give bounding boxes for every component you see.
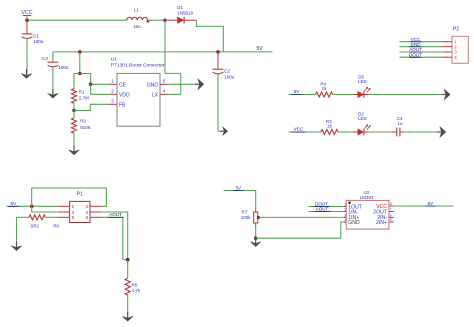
ground below R5 xyxy=(127,312,129,318)
svg-text:D1: D1 xyxy=(177,5,183,10)
svg-text:2.7M: 2.7M xyxy=(79,95,89,100)
wire node to R1 xyxy=(74,74,80,89)
svg-text:3: 3 xyxy=(111,98,114,103)
svg-text:GND: GND xyxy=(411,42,422,47)
ground below C3 xyxy=(52,89,54,95)
svg-text:2: 2 xyxy=(111,88,114,93)
potentiometer R7 xyxy=(255,209,257,212)
junction L1/D1/LX xyxy=(163,19,167,23)
wire node to CE/VDD xyxy=(80,74,109,85)
capacitor C3 xyxy=(52,52,54,62)
capacitor C4 xyxy=(392,131,397,133)
wire to P1 pin3 xyxy=(32,206,58,212)
svg-text:2: 2 xyxy=(85,204,88,210)
svg-text:R5: R5 xyxy=(132,283,138,288)
comparator U2 box xyxy=(346,200,389,229)
svg-text:C1: C1 xyxy=(33,33,39,38)
junction CE/VDD xyxy=(89,83,93,87)
svg-text:AOUT: AOUT xyxy=(316,206,329,211)
svg-text:5V: 5V xyxy=(428,201,434,206)
ground below SR1 xyxy=(16,241,18,247)
wire R7 wiper to 1IN+ xyxy=(258,216,344,218)
svg-text:1u: 1u xyxy=(398,121,404,126)
junction R1 node xyxy=(78,72,82,76)
svg-text:100n: 100n xyxy=(58,65,69,70)
wire AOUT to U2 xyxy=(309,211,344,213)
svg-text:4: 4 xyxy=(163,88,166,93)
svg-text:1: 1 xyxy=(71,204,74,210)
diode D1 xyxy=(165,19,177,21)
svg-text:5V: 5V xyxy=(235,186,241,191)
U2 pin 2 1IN- xyxy=(344,211,346,213)
svg-text:5: 5 xyxy=(163,78,166,83)
U2 pin1 marker xyxy=(348,202,350,204)
ground below R7 xyxy=(255,237,257,243)
U2 pin 8 VCC xyxy=(389,205,394,207)
svg-text:SR1: SR1 xyxy=(30,223,39,228)
svg-text:10u: 10u xyxy=(133,24,141,29)
wire D2 to C4 xyxy=(369,131,396,133)
svg-text:6: 6 xyxy=(390,214,392,218)
svg-text:100u: 100u xyxy=(224,74,235,79)
wire C4 to ground arrow xyxy=(404,131,437,133)
P1 pin 3 stub xyxy=(58,211,70,213)
wire R3 to D2 xyxy=(338,131,353,133)
wire P1 pin6 AOUT xyxy=(102,217,128,259)
wire D3 to ground arrow xyxy=(369,94,442,96)
wire VCC to R3 xyxy=(289,131,321,133)
svg-text:2: 2 xyxy=(344,208,346,212)
wire loop over P1 xyxy=(32,188,107,206)
wire 5V rail xyxy=(53,51,273,53)
svg-text:1: 1 xyxy=(111,78,114,83)
svg-text:1N5819: 1N5819 xyxy=(177,11,193,16)
svg-text:100k: 100k xyxy=(241,215,252,220)
U1 pin 5 GND xyxy=(160,83,168,85)
svg-text:R1: R1 xyxy=(79,89,85,94)
svg-text:1: 1 xyxy=(344,203,346,207)
svg-text:FB: FB xyxy=(119,102,126,108)
LED D3 xyxy=(353,94,358,96)
svg-text:GND: GND xyxy=(348,220,360,226)
capacitor C1 xyxy=(26,20,28,34)
svg-text:R6: R6 xyxy=(53,224,59,229)
resistor R4 xyxy=(316,92,333,97)
U1 pin 1 CE xyxy=(109,83,117,85)
wire P2 pin 4 net DOUT xyxy=(400,56,443,58)
svg-text:5V: 5V xyxy=(294,89,300,94)
connector P2 box xyxy=(452,36,468,63)
svg-text:5V: 5V xyxy=(10,201,16,206)
junction R1/R2/FB xyxy=(72,109,76,113)
junction rail/divider xyxy=(78,50,82,54)
wire DOUT to U2 xyxy=(309,206,344,208)
wire FB xyxy=(74,104,109,110)
svg-text:R7: R7 xyxy=(242,209,248,214)
U1 pin 2 VDD xyxy=(109,93,117,95)
wire LX to inductor node xyxy=(165,20,181,94)
wire GND pin xyxy=(168,83,195,85)
connector P1 box xyxy=(70,201,90,222)
svg-text:6: 6 xyxy=(85,215,88,221)
wire 5V to R4 xyxy=(289,94,316,96)
U2 pin 5 2IN+ xyxy=(389,221,394,223)
svg-text:4: 4 xyxy=(85,210,88,216)
U2 pin 6 2IN- xyxy=(389,216,394,218)
P1 pin 2 stub xyxy=(90,205,102,207)
svg-text:CE: CE xyxy=(119,82,127,88)
svg-text:1k: 1k xyxy=(327,124,333,129)
wire R4 to D3 xyxy=(333,94,353,96)
junction P1 xyxy=(30,205,34,209)
ground below R2 xyxy=(73,146,75,152)
wire VCC rail top xyxy=(27,19,127,21)
wire pin5 left xyxy=(45,216,58,218)
svg-text:2IN+: 2IN+ xyxy=(376,220,387,226)
svg-text:5V: 5V xyxy=(256,46,263,52)
ground right row2 xyxy=(437,131,441,133)
P1 pin 6 stub xyxy=(90,216,102,218)
inductor L1 xyxy=(127,17,148,20)
wire to U2 GND xyxy=(256,222,344,238)
svg-text:VCC: VCC xyxy=(294,127,304,132)
svg-text:100u: 100u xyxy=(33,39,44,44)
wire 5V to R7 xyxy=(224,191,256,210)
wire U2 VCC to 5V xyxy=(394,205,454,207)
svg-text:4.7k: 4.7k xyxy=(132,288,141,293)
resistor SR1 xyxy=(29,215,46,220)
svg-text:5: 5 xyxy=(71,215,74,221)
P2 pin 4 stub xyxy=(443,56,453,58)
svg-text:LED: LED xyxy=(358,116,368,121)
ground right of U1 xyxy=(195,83,199,85)
U1 pin 4 LX xyxy=(160,93,168,95)
svg-text:910K: 910K xyxy=(80,125,91,130)
P2 pin 3 stub xyxy=(443,51,453,53)
svg-text:LX: LX xyxy=(152,92,159,98)
wire L1 to D1 node xyxy=(149,19,165,21)
wire P2 pin 2 net GND xyxy=(400,46,443,48)
svg-text:P1: P1 xyxy=(77,191,83,197)
svg-text:C2: C2 xyxy=(224,69,230,74)
P1 pin 1 stub xyxy=(58,205,70,207)
svg-text:3: 3 xyxy=(344,214,346,218)
resistor R2 xyxy=(73,111,75,118)
resistor R1 xyxy=(72,89,77,104)
U1 pin 3 FB xyxy=(109,103,117,105)
resistor R3 xyxy=(321,130,338,135)
P1 pin 5 stub xyxy=(58,216,70,218)
svg-text:P2: P2 xyxy=(453,27,459,33)
junction R5 xyxy=(126,258,130,262)
svg-text:3: 3 xyxy=(71,210,74,216)
svg-text:LED: LED xyxy=(358,79,368,84)
wire R7 bottom xyxy=(255,227,257,239)
wire D1 to 5V rail xyxy=(196,20,223,52)
P2 pin 1 stub xyxy=(443,41,453,43)
ground below C1 xyxy=(26,69,28,75)
junction R7 gnd xyxy=(254,236,258,240)
wire P2 pin 1 net VCC xyxy=(400,41,443,43)
U2 pin 4 GND xyxy=(344,221,346,223)
wire 5V to P1 pin1 xyxy=(7,205,58,207)
wire P2 pin 3 net AOUT xyxy=(400,51,443,53)
svg-text:1k: 1k xyxy=(322,86,328,91)
P1 pin 4 stub xyxy=(90,211,102,213)
junction rail/C2 xyxy=(216,50,220,54)
svg-text:VDD: VDD xyxy=(119,92,130,98)
ground right below C2 xyxy=(221,130,224,132)
U2 pin 7 2OUT xyxy=(389,211,394,213)
svg-text:L1: L1 xyxy=(134,7,140,12)
wire pin5 to ground xyxy=(16,217,18,246)
svg-text:GND: GND xyxy=(147,82,159,88)
svg-text:C3: C3 xyxy=(42,56,48,61)
svg-text:5: 5 xyxy=(390,218,392,222)
svg-text:4: 4 xyxy=(344,218,346,222)
svg-text:DOUT: DOUT xyxy=(409,52,422,57)
op-amp U1 box xyxy=(117,73,160,126)
junction VCC/C1 xyxy=(25,19,29,23)
U2 pin 3 1IN+ xyxy=(344,216,346,218)
svg-text:U1: U1 xyxy=(111,56,118,62)
svg-text:AOUT: AOUT xyxy=(109,212,122,217)
P2 pin 2 stub xyxy=(443,46,453,48)
svg-text:R2: R2 xyxy=(80,119,86,124)
resistor R5 xyxy=(127,260,129,279)
U2 pin 1 1OUT xyxy=(344,206,346,208)
wire P1 pin4 down xyxy=(102,212,128,260)
svg-text:7: 7 xyxy=(390,208,392,212)
capacitor C2 xyxy=(217,52,219,69)
LED D2 xyxy=(353,131,358,133)
wire to VDD xyxy=(91,84,109,94)
wire rail to R1 node xyxy=(79,52,81,74)
svg-text:PT1301.Boost Converter: PT1301.Boost Converter xyxy=(111,62,165,68)
ground right row1 xyxy=(441,94,445,96)
svg-text:8: 8 xyxy=(390,202,392,206)
svg-text:LM393: LM393 xyxy=(360,195,374,200)
